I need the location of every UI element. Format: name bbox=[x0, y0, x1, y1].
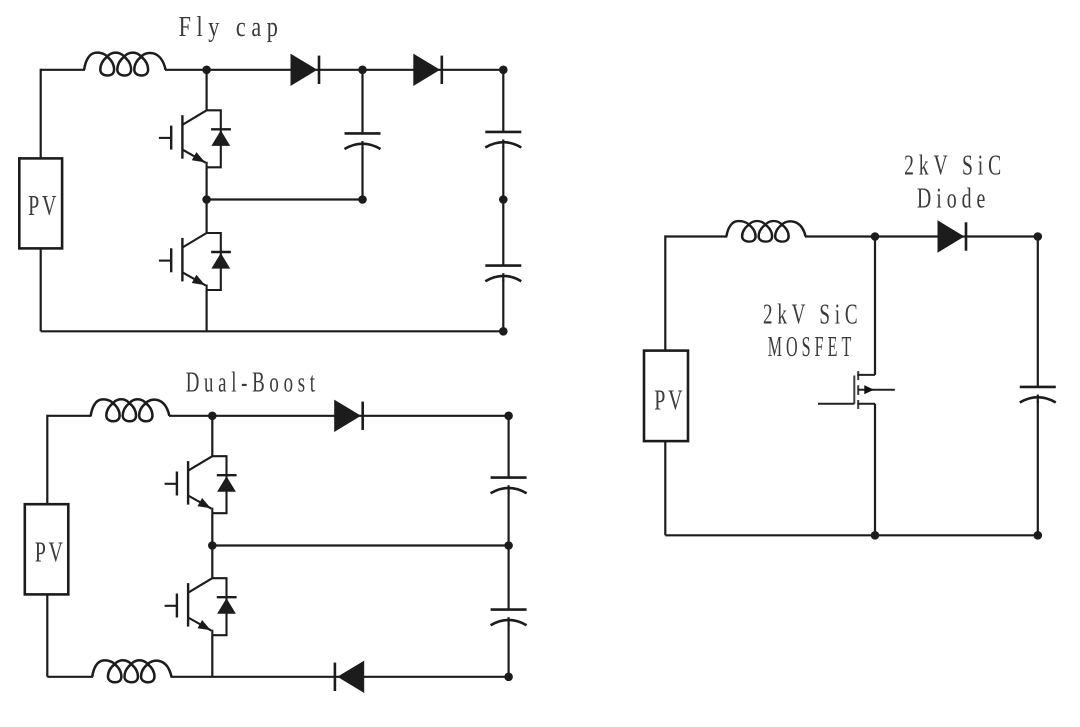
svg-text:PV: PV bbox=[28, 190, 59, 222]
node: IGBT midpoint bbox=[202, 195, 211, 204]
svg-text:MOSFET: MOSFET bbox=[768, 332, 856, 363]
diode D4 bbox=[334, 661, 365, 693]
IGBT S2 with antiparallel diode bbox=[159, 233, 231, 290]
svg-text:Diode: Diode bbox=[917, 183, 990, 214]
node: boost switching node bbox=[871, 232, 880, 241]
wire: output rail upper segment (SiC boost) bbox=[1037, 237, 1039, 387]
wire: top rail from L2a through D3 to output top bbox=[169, 415, 509, 417]
diode D3 bbox=[334, 400, 364, 432]
node: upper switching node bbox=[208, 412, 217, 421]
output capacitor C4 bbox=[491, 610, 527, 626]
IGBT S1 with antiparallel diode bbox=[159, 110, 231, 167]
wire: output rail middle segment (dual-boost) bbox=[508, 492, 510, 610]
wire: bottom rail bbox=[41, 330, 504, 332]
inductor L3 bbox=[726, 221, 805, 242]
node: output top (dual-boost) bbox=[504, 412, 513, 421]
node: mid rail right bbox=[504, 541, 513, 550]
svg-text:2kV SiC: 2kV SiC bbox=[763, 299, 862, 330]
IGBT S4 with antiparallel diode bbox=[165, 578, 237, 635]
wire: bottom rail from L2b through D4 to output bottom bbox=[171, 676, 509, 678]
wire: left vertical PV2 bottom side bbox=[46, 594, 48, 676]
svg-text:PV: PV bbox=[654, 385, 685, 417]
wire: S3 emitter to mid rail bbox=[211, 513, 213, 545]
wire: midpoint horizontal to fly-cap bottom bbox=[207, 198, 363, 200]
wire: left vertical PV3 bottom side bbox=[664, 441, 666, 535]
wire: S4 collector stub bbox=[211, 546, 213, 579]
wire: output rail lower segment bbox=[502, 280, 504, 332]
wire: top-left from PV3 to inductor L3 bbox=[665, 235, 727, 237]
MOSFET Q1 (2kV SiC) bbox=[818, 371, 895, 409]
wire: fly-cap top lead bbox=[361, 70, 363, 134]
node: output bottom (SiC boost) bbox=[1034, 531, 1043, 540]
wire: top-left from PV to inductor L1 bbox=[41, 69, 85, 71]
wire: output rail upper segment (dual-boost) bbox=[508, 416, 510, 478]
wire: S2 collector stub bbox=[206, 200, 208, 234]
wire: collector stub of S1 bbox=[206, 70, 208, 111]
node: output capacitor midpoint bbox=[499, 195, 508, 204]
node: output top (SiC boost) bbox=[1034, 232, 1043, 241]
node: mid rail left bbox=[208, 541, 217, 550]
wire: left vertical PV bottom side bbox=[40, 248, 42, 331]
diode D5 (2kV SiC) bbox=[938, 220, 968, 252]
IGBT S3 with antiparallel diode bbox=[165, 456, 237, 513]
inductor L2a bbox=[91, 399, 170, 421]
output capacitor C3 bbox=[491, 478, 527, 494]
svg-text:PV: PV bbox=[35, 537, 66, 569]
wire: S1 emitter to midpoint node bbox=[206, 167, 208, 199]
flying capacitor Cf bbox=[345, 133, 381, 149]
svg-text:Fly cap: Fly cap bbox=[179, 12, 284, 43]
diode D1 bbox=[291, 54, 321, 86]
wire: drain vertical of MOSFET bbox=[874, 237, 876, 375]
wire: left vertical PV2 top side bbox=[46, 415, 48, 505]
wire: S4 emitter to bottom rail bbox=[211, 635, 213, 677]
wire: top rail from L3 through D5 to output top bbox=[805, 235, 1038, 237]
wire: top rail from L1 through D1, D2 to output node bbox=[165, 69, 503, 71]
PV source PV1 bbox=[19, 158, 62, 248]
svg-text:Dual-Boost: Dual-Boost bbox=[186, 368, 320, 399]
wire: S2 emitter to bottom rail bbox=[206, 290, 208, 331]
wire: output rail between capacitors bbox=[502, 146, 504, 266]
wire: fly-cap bottom lead bbox=[361, 148, 363, 200]
node: fly-cap bottom bbox=[358, 195, 367, 204]
node: switching node A bbox=[202, 66, 211, 75]
wire: left vertical PV3 top side bbox=[664, 235, 666, 350]
node: output top bbox=[499, 66, 508, 75]
PV source PV3 bbox=[644, 351, 688, 442]
inductor L1 bbox=[84, 53, 166, 76]
diode D2 bbox=[413, 54, 443, 86]
wire: output rail lower segment (SiC boost) bbox=[1037, 401, 1039, 535]
wire: source vertical of MOSFET to bottom rail bbox=[874, 404, 876, 536]
node: output bottom bbox=[499, 327, 508, 336]
node: source at bottom rail bbox=[871, 531, 880, 540]
node: D1-D2 junction / fly-cap top bbox=[358, 66, 367, 75]
wire: S3 collector stub bbox=[211, 416, 213, 456]
PV source PV2 bbox=[25, 504, 69, 594]
output capacitor C1 bbox=[485, 132, 521, 148]
wire: output rail upper segment bbox=[502, 70, 504, 132]
output capacitor C2 bbox=[485, 266, 521, 282]
wire: mid rail horizontal bbox=[212, 544, 508, 546]
svg-text:2kV SiC: 2kV SiC bbox=[904, 150, 1006, 181]
wire: bottom-left from PV2 to inductor L2b bbox=[47, 676, 93, 678]
wire: bottom rail (SiC boost) bbox=[665, 534, 1038, 536]
wire: output rail lower segment (dual-boost) bbox=[508, 624, 510, 677]
node: output bottom (dual-boost) bbox=[504, 673, 513, 682]
inductor L2b bbox=[92, 660, 171, 682]
wire: left vertical PV top side bbox=[40, 69, 42, 159]
output capacitor C5 bbox=[1020, 387, 1056, 403]
wire: top-left from PV to inductor L2a bbox=[47, 415, 91, 417]
